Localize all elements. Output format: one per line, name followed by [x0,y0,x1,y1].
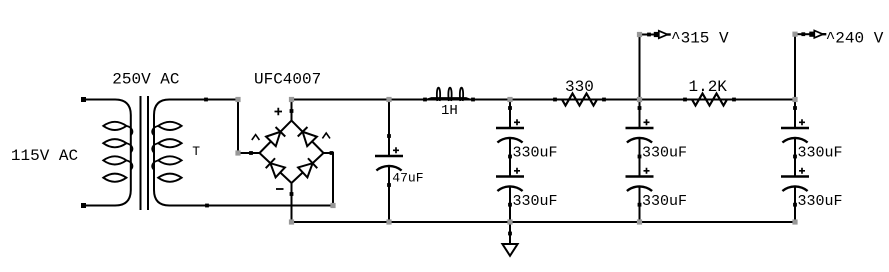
bridge rectifier UFC4007 diamond [260,121,324,184]
transformer T secondary winding turns [158,122,181,182]
svg-text:^240 V: ^240 V [826,30,884,48]
diode D2 (right AC to +) of bridge [298,127,317,146]
wire: bridge - node drop to bottom rail [291,183,293,222]
capacitor C6 330uF upper [781,108,809,156]
wire: secondary top lead to bridge [154,100,238,191]
wire: 47uF column [388,100,390,223]
transformer T primary winding turns [103,122,126,182]
svg-text:330uF: 330uF [642,193,687,210]
capacitor C4 330uF upper [626,108,654,156]
bridge right AC tilde mark [322,133,330,138]
output arrow ^240 V [795,31,826,38]
svg-text:UFC4007: UFC4007 [254,71,321,89]
wire: main top rail (+ bus) [292,99,796,101]
svg-text:250V AC: 250V AC [112,71,179,89]
svg-text:330uF: 330uF [642,145,687,162]
bridge + polarity mark [275,108,283,116]
svg-text:330uF: 330uF [798,193,843,210]
bridge left AC tilde mark [252,135,260,140]
pin dots [81,32,805,235]
transformer T core [141,96,149,210]
capacitor C7 330uF lower [781,157,809,205]
diode D4 (- to right AC) of bridge [298,158,317,177]
wire: bridge right AC node drop to secondary return [324,153,334,206]
secondary winding turn links [152,126,158,170]
wire: secondary bottom lead [154,190,333,206]
wire: main bottom rail (0V bus) [292,221,796,223]
diode D1 (left AC to +) of bridge [266,127,285,146]
capacitor C5 330uF lower [626,157,654,205]
wire: ^315 V riser [639,35,641,100]
resistor R1 330 zigzag [562,94,597,106]
svg-text:330uF: 330uF [513,145,558,162]
wire: primary leads and return [84,100,131,206]
svg-text:1.2K: 1.2K [689,78,728,96]
svg-text:47uF: 47uF [392,171,423,186]
primary winding turn links [126,126,132,170]
svg-text:330: 330 [565,78,594,96]
output arrow ^315 V [640,31,671,38]
diode D3 (- to left AC) of bridge [266,158,285,177]
wire: ^240 V riser [794,34,796,99]
svg-text:330uF: 330uF [798,145,843,162]
capacitor C1 47uF [375,136,403,184]
resistor R2 1.2K zigzag [692,94,727,106]
svg-text:1H: 1H [441,103,458,119]
svg-text:T: T [192,144,200,159]
wire: bridge + node riser to top rail [291,100,293,121]
junction squares (gray editor handles) [235,32,797,225]
ground symbol [502,244,517,256]
svg-text:115V AC: 115V AC [11,147,78,165]
inductor L1 1H loops [427,98,470,99]
wire: filter column 3 [794,100,796,223]
capacitor C3 330uF lower [496,157,524,205]
wire: filter column 1 [509,100,511,223]
capacitor C2 330uF upper [496,108,524,156]
wire: filter column 2 [639,100,641,223]
svg-text:^315 V: ^315 V [671,30,729,48]
svg-text:330uF: 330uF [513,193,558,210]
bridge - polarity mark [276,188,284,190]
wire: ground drop [509,222,511,244]
